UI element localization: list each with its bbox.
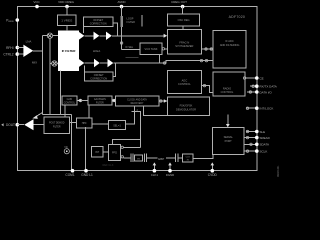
wire limiter top output bbox=[112, 35, 164, 37]
box INT F1 bbox=[92, 147, 104, 158]
wire cap to clk box bbox=[178, 157, 182, 159]
box AGC control bbox=[167, 70, 201, 93]
arrowhead into synthesizer bbox=[164, 34, 168, 38]
node AVDD bbox=[120, 5, 124, 9]
node VDD1 bbox=[35, 5, 39, 9]
box ADC and filters bbox=[213, 30, 246, 68]
wire MIX2 to IF filter bbox=[57, 62, 59, 64]
wire MIX1 to IF filter bbox=[53, 35, 59, 37]
arrow up CLK1 pin bbox=[153, 165, 155, 171]
mixer MIX2 bbox=[52, 61, 57, 66]
svg-text:CE: CE bbox=[260, 76, 264, 80]
svg-text:MIX: MIX bbox=[32, 61, 37, 65]
box OSC F2 bbox=[109, 145, 121, 161]
wire pin DATA IO bbox=[247, 91, 257, 93]
svg-text:VDD CREG: VDD CREG bbox=[58, 0, 75, 4]
svg-text:CTRL2: CTRL2 bbox=[3, 53, 13, 57]
box slicer E3 bbox=[109, 121, 126, 130]
box HPF E2 bbox=[77, 118, 93, 128]
wire VREG to IF filter stub bbox=[66, 26, 68, 32]
wire LO to MIX2 bbox=[50, 62, 52, 64]
amplifier LNA bbox=[23, 45, 33, 57]
wire crystal right bbox=[147, 157, 158, 159]
svg-text:COM1: COM1 bbox=[65, 173, 74, 177]
capacitor loop filter stub bbox=[141, 15, 143, 27]
node circle F2 bottom out bbox=[121, 156, 123, 158]
svg-text:DEMODULATOR: DEMODULATOR bbox=[176, 107, 196, 111]
node RFIN bbox=[15, 18, 19, 22]
svg-text:SDATA: SDATA bbox=[260, 143, 270, 147]
wire riser F2 feedback bbox=[132, 112, 141, 148]
filter vertical resistor element bbox=[120, 16, 123, 27]
svg-text:IF ADC: IF ADC bbox=[225, 39, 233, 43]
wire D2 to E2 bbox=[88, 105, 90, 118]
svg-text:1 VREG: 1 VREG bbox=[61, 19, 73, 23]
wire pin DATA CLK bbox=[250, 85, 257, 87]
node circle RSSI a bbox=[200, 59, 202, 61]
wire synth to ADC box bbox=[201, 48, 213, 50]
svg-text:EBP: EBP bbox=[158, 157, 164, 161]
svg-text:CLK1: CLK1 bbox=[151, 173, 158, 177]
svg-text:VD: VD bbox=[64, 146, 68, 149]
wire pin SLE bbox=[246, 131, 257, 133]
amplifier limiter T1 bbox=[79, 32, 85, 40]
svg-text:AND FILTERING: AND FILTERING bbox=[220, 43, 240, 47]
svg-text:RX/TX DATA: RX/TX DATA bbox=[260, 85, 277, 89]
svg-text:FILTER: FILTER bbox=[96, 102, 104, 104]
svg-text:CVDD: CVDD bbox=[208, 173, 218, 177]
offset correction box bottom bbox=[85, 72, 113, 81]
wire LO chain bbox=[49, 38, 51, 115]
svg-text:SERIAL: SERIAL bbox=[224, 135, 234, 139]
box FRAC-N synthesizer bbox=[167, 30, 201, 55]
wire IF filter bottom tap bbox=[60, 71, 62, 115]
wire tap to VCO box bbox=[122, 48, 140, 50]
wire D2 to D1 bbox=[77, 100, 88, 102]
filter IF FILTER bbox=[59, 31, 79, 70]
svg-text:CONTROL: CONTROL bbox=[64, 102, 76, 104]
wire D3 to demod bbox=[159, 100, 168, 102]
wire offset top stub bbox=[83, 27, 85, 33]
wire T2-T3 bbox=[99, 35, 106, 37]
svg-text:SEL=1: SEL=1 bbox=[113, 124, 121, 127]
wire clk to serial corner bbox=[193, 155, 213, 159]
wire E1 to buffer bbox=[34, 124, 45, 126]
svg-text:POST DEMOD: POST DEMOD bbox=[49, 123, 65, 125]
svg-text:AGC: AGC bbox=[182, 79, 188, 83]
wire ebp right bbox=[166, 157, 175, 159]
amplifier limiter T2 bbox=[94, 32, 100, 40]
svg-text:CONTROL: CONTROL bbox=[221, 90, 234, 94]
amplifier limiter T5 bbox=[94, 59, 100, 67]
wire offset bottom stub bbox=[84, 66, 86, 72]
wire F2 to crystal bbox=[123, 157, 130, 159]
arrow up DVDD pin bbox=[211, 165, 213, 171]
wire D3 to E3 bbox=[126, 106, 135, 124]
svg-text:CREG OUT: CREG OUT bbox=[171, 0, 187, 4]
svg-text:CONTROL: CONTROL bbox=[178, 82, 191, 86]
svg-text:CLK: CLK bbox=[186, 156, 191, 158]
wire D3 to demod bottom bbox=[143, 106, 167, 116]
svg-text:PORT: PORT bbox=[225, 139, 233, 143]
wire RSSI output bbox=[113, 61, 213, 63]
svg-text:CLOCK AND DATA: CLOCK AND DATA bbox=[127, 98, 147, 101]
node circle synth out b bbox=[210, 48, 212, 50]
box clock data recovery D3 bbox=[116, 96, 159, 106]
svg-text:VCC: VCC bbox=[33, 0, 40, 4]
node circle D3 out bbox=[160, 100, 162, 102]
box crystal osc top right bbox=[168, 14, 200, 26]
wire riser GND1 bbox=[85, 127, 87, 171]
chip outline box bbox=[17, 7, 256, 171]
capacitor C3 bbox=[176, 154, 179, 162]
oscillator symbol bbox=[64, 149, 69, 154]
arrowhead into demod bbox=[164, 99, 167, 103]
node RFHI bbox=[15, 46, 19, 50]
svg-text:DATA I/O: DATA I/O bbox=[260, 90, 273, 94]
box CLK DIV bbox=[183, 154, 193, 162]
svg-text:LOOP: LOOP bbox=[127, 18, 134, 21]
node circle F2 top out bbox=[121, 146, 123, 148]
box serial port bbox=[213, 128, 244, 155]
svg-text:SREAD: SREAD bbox=[260, 136, 271, 140]
svg-text:DOUT: DOUT bbox=[6, 123, 15, 127]
svg-text:LNA: LNA bbox=[26, 40, 32, 44]
wire F1-F2 bbox=[103, 151, 109, 153]
box gain control D1 bbox=[62, 96, 77, 105]
svg-text:GAUSSIAN: GAUSSIAN bbox=[94, 98, 106, 101]
node CREG VOUT bbox=[181, 5, 185, 9]
wire T5-T6 bbox=[100, 62, 108, 64]
capacitor C1 bbox=[131, 153, 133, 162]
svg-text:IF SEL: IF SEL bbox=[126, 46, 134, 49]
wire pin SREAD bbox=[244, 137, 257, 139]
svg-text:SLE: SLE bbox=[260, 130, 266, 134]
wire VCO to synth bbox=[165, 48, 168, 50]
node CREG bbox=[65, 5, 69, 9]
svg-text:VCO TANK: VCO TANK bbox=[144, 47, 157, 51]
svg-text:REF CLK: REF CLK bbox=[103, 163, 114, 167]
svg-text:OSC REG: OSC REG bbox=[178, 18, 190, 22]
wire F2 top feedback bbox=[123, 146, 140, 148]
wire E1-E2 bbox=[70, 122, 77, 124]
wire F2 top to riser bbox=[113, 139, 141, 144]
amplifier limiter T6 bbox=[108, 59, 114, 67]
wire pin CE bbox=[245, 77, 257, 79]
svg-text:DGND: DGND bbox=[166, 173, 174, 177]
svg-text:FSK/GFSK: FSK/GFSK bbox=[180, 104, 193, 108]
wire RFLO to LNA bbox=[17, 53, 24, 55]
arrowhead into D2 bbox=[112, 99, 115, 103]
svg-text:INT: INT bbox=[95, 151, 100, 154]
wire AVDD stub bbox=[121, 7, 123, 17]
svg-text:CORRECTION: CORRECTION bbox=[90, 23, 107, 26]
wire VCO tank stub bbox=[158, 55, 160, 64]
crystal X1 bbox=[135, 155, 143, 161]
node circle synth out a bbox=[205, 48, 207, 50]
svg-text:GAIN: GAIN bbox=[67, 98, 73, 101]
svg-text:RECOVERY: RECOVERY bbox=[131, 103, 144, 105]
svg-text:HPF: HPF bbox=[82, 122, 87, 125]
svg-text:SYNTHESIZER: SYNTHESIZER bbox=[175, 44, 193, 48]
wire resistor down bbox=[121, 27, 123, 49]
wire faint segment bbox=[125, 57, 138, 59]
box demodulator bbox=[167, 97, 209, 115]
pin DOUT left label bbox=[1, 123, 3, 126]
node COM1 bbox=[71, 169, 75, 173]
mixer MIX1 bbox=[47, 33, 52, 38]
node DOUT bbox=[15, 123, 19, 127]
amplifier limiter T3 bbox=[106, 32, 112, 40]
box gaussian filter D2 bbox=[88, 96, 112, 105]
node circle VCO out bbox=[162, 48, 164, 50]
wire D3 to D2 bbox=[112, 100, 116, 102]
wire AGC out jog bbox=[202, 86, 214, 93]
offset correction box top bbox=[84, 17, 113, 27]
svg-text:IF FILTER: IF FILTER bbox=[62, 49, 77, 53]
svg-text:SCLK: SCLK bbox=[260, 149, 268, 153]
svg-text:CORRECTION: CORRECTION bbox=[90, 77, 107, 80]
wire LNA output bbox=[33, 50, 42, 52]
box VCO tank bbox=[140, 43, 162, 55]
arrowhead into D1 bbox=[77, 99, 80, 103]
regulator box top-left bbox=[58, 15, 77, 26]
box radio control bbox=[213, 72, 245, 96]
arrow control to serial bbox=[227, 115, 229, 126]
node circle RSSI b bbox=[205, 59, 207, 61]
wire top pin stub bbox=[182, 7, 184, 15]
svg-text:INT/LOCK: INT/LOCK bbox=[260, 107, 274, 111]
svg-text:RADIO: RADIO bbox=[223, 86, 231, 90]
wire D1 to E1 bbox=[64, 105, 66, 117]
wire CREG stub bbox=[66, 7, 68, 16]
wire osc to synth stub bbox=[182, 26, 184, 30]
wire offset bottom right jog bbox=[113, 63, 116, 77]
capacitor C2 bbox=[144, 153, 146, 162]
wire LNA riser bbox=[41, 36, 43, 115]
svg-text:06229-001: 06229-001 bbox=[277, 165, 280, 177]
wire E2-E3 bbox=[92, 123, 109, 125]
node circle AGC out bbox=[203, 84, 205, 86]
svg-text:ADF7020: ADF7020 bbox=[229, 15, 246, 19]
node DVDD bbox=[211, 169, 215, 173]
wire pin INT LOCK bbox=[246, 107, 257, 109]
arrow up CLK2 pin bbox=[169, 165, 171, 171]
box post demod filter E1 bbox=[44, 117, 70, 134]
wire buffer to pin bbox=[17, 124, 24, 126]
wire T4-T5 bbox=[84, 62, 94, 64]
node circle RSSI mid bbox=[163, 62, 165, 64]
wire pin SCLK bbox=[244, 150, 257, 152]
node circle tap bbox=[120, 42, 122, 44]
amplifier limiter T4 bbox=[79, 59, 85, 67]
wire offset top right jog bbox=[113, 23, 118, 36]
wire RFHI to LNA bbox=[17, 47, 24, 49]
svg-text:PFD: PFD bbox=[112, 152, 117, 155]
wire T1-T2 bbox=[84, 35, 93, 37]
node circle D2-D1 bbox=[79, 99, 81, 101]
svg-text:FRAC-N: FRAC-N bbox=[179, 41, 189, 45]
svg-text:RFHI: RFHI bbox=[6, 46, 14, 50]
node RFLO bbox=[15, 52, 19, 56]
wire pin SDATA bbox=[244, 143, 257, 145]
wire riser COM1 bbox=[71, 115, 73, 171]
svg-text:FILTER: FILTER bbox=[53, 126, 61, 128]
arrow gain control diagonal bbox=[35, 113, 42, 118]
node GND1 bbox=[84, 169, 88, 173]
node circle D3-D2 bbox=[112, 99, 114, 101]
node CLK2 bbox=[168, 169, 172, 173]
amplifier output buffer bbox=[24, 119, 33, 130]
node CLK1 bbox=[153, 169, 157, 173]
wire into mixer MIX1 bbox=[42, 35, 48, 37]
svg-text:GND L1: GND L1 bbox=[81, 173, 93, 177]
svg-text:FILTER: FILTER bbox=[127, 21, 136, 24]
svg-text:HIGA: HIGA bbox=[93, 49, 100, 53]
svg-text:AVDD: AVDD bbox=[117, 0, 126, 4]
